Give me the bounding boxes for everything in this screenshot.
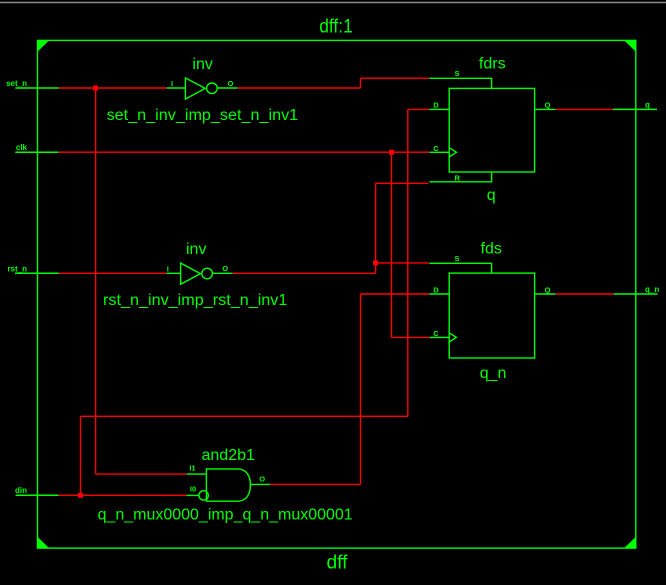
wire clk branch vertical to fds C xyxy=(391,152,393,337)
svg-text:q: q xyxy=(487,187,496,204)
wire U5 output horizontal xyxy=(270,483,360,485)
I0 inversion bubble of U5 xyxy=(199,491,208,500)
sheet border xyxy=(38,40,636,548)
R pin stub of U3 xyxy=(429,172,491,182)
red nets xyxy=(59,78,614,495)
Q pin stub of U4 xyxy=(535,293,556,295)
junction on clk net xyxy=(389,150,394,155)
wire din branch vertical to fdrs D xyxy=(407,109,409,416)
corner mark bottom-right xyxy=(624,537,636,548)
svg-text:D: D xyxy=(433,101,439,110)
svg-text:q_n: q_n xyxy=(480,365,507,382)
wire set_n branch horizontal to U5 I1 xyxy=(96,473,187,475)
I1 pin stub of U5 xyxy=(187,473,207,475)
wire U5 output vertical to fds D xyxy=(360,294,362,484)
wire din branch horizontal xyxy=(81,415,408,417)
svg-text:O: O xyxy=(222,264,228,273)
wire din branch vertical xyxy=(80,416,82,495)
C pin stub of U3 xyxy=(429,151,449,153)
svg-text:rst_n_inv_imp_rst_n_inv1: rst_n_inv_imp_rst_n_inv1 xyxy=(103,292,287,309)
wire U1 output to fdrs S xyxy=(361,77,429,79)
svg-text:I0: I0 xyxy=(190,485,196,494)
svg-text:C: C xyxy=(433,329,439,338)
S pin stub of U4 xyxy=(429,263,491,273)
svg-text:S: S xyxy=(455,69,460,78)
top separator line xyxy=(0,2,666,4)
wire set_n to U1 input xyxy=(59,87,167,89)
wire fds Q to q_n pin xyxy=(556,293,614,295)
flip-flop U4 fds xyxy=(429,263,555,358)
svg-text:D: D xyxy=(433,286,439,295)
and-gate U5 and2b1 xyxy=(187,469,271,501)
svg-text:inv: inv xyxy=(186,241,206,258)
wire din branch horizontal to fdrs D xyxy=(408,108,430,110)
input pin clk xyxy=(15,151,58,153)
Q pin stub of U3 xyxy=(535,108,556,110)
svg-text:dff: dff xyxy=(327,553,349,574)
clock mark of U3 xyxy=(449,148,456,157)
I0 pin stub of U5 xyxy=(187,494,199,496)
svg-text:set_n: set_n xyxy=(6,79,27,88)
svg-text:I: I xyxy=(167,264,169,273)
clock mark of U4 xyxy=(449,333,456,342)
input pin rst_n xyxy=(15,272,59,274)
wire clk to fdrs C xyxy=(59,151,430,153)
svg-text:I1: I1 xyxy=(189,464,195,473)
svg-text:C: C xyxy=(433,144,439,153)
svg-text:fdrs: fdrs xyxy=(479,55,506,72)
O pin stub of U5 xyxy=(250,483,270,485)
wire U1 output bend vertical xyxy=(360,78,362,88)
wire rst_n to U2 input xyxy=(59,272,167,274)
D pin stub of U4 xyxy=(429,293,449,295)
svg-text:set_n_inv_imp_set_n_inv1: set_n_inv_imp_set_n_inv1 xyxy=(107,107,299,124)
corner mark bottom-left xyxy=(38,537,50,548)
wire din to U5 I0 xyxy=(59,494,187,496)
wire clk branch horizontal to fds C xyxy=(392,336,430,338)
svg-text:dff:1: dff:1 xyxy=(319,17,353,38)
svg-text:R: R xyxy=(455,173,461,182)
wire rst branch to fds S xyxy=(376,262,429,264)
svg-text:I: I xyxy=(171,79,173,88)
wire rst vertical to fdrs R xyxy=(375,183,377,273)
junction on set_n net xyxy=(93,86,98,91)
output pin q_n xyxy=(614,293,658,295)
svg-text:din: din xyxy=(15,486,27,495)
inverter U2 rst_n_inv xyxy=(167,263,233,284)
corner mark top-left xyxy=(38,40,50,51)
svg-text:fds: fds xyxy=(481,240,502,257)
svg-text:inv: inv xyxy=(192,56,212,73)
corner mark top-right xyxy=(624,40,636,51)
input pin din xyxy=(16,494,59,496)
D pin stub of U3 xyxy=(429,108,449,110)
junction on rst net xyxy=(373,260,378,265)
wire fdrs Q to q pin xyxy=(556,108,613,110)
svg-text:q_n: q_n xyxy=(645,285,659,294)
svg-text:rst_n: rst_n xyxy=(7,264,27,273)
input pin set_n xyxy=(15,87,59,89)
svg-text:and2b1: and2b1 xyxy=(202,447,255,464)
svg-text:S: S xyxy=(455,254,460,263)
C pin stub of U4 xyxy=(430,336,450,338)
inverter U1 set_n_inv xyxy=(167,78,238,99)
wire U1 output horizontal xyxy=(238,87,361,89)
wire U2 output horizontal xyxy=(233,272,376,274)
svg-text:q: q xyxy=(645,101,650,110)
wire rst to fdrs R horizontal xyxy=(376,182,429,184)
flip-flop U3 fdrs xyxy=(429,78,555,182)
output pin q xyxy=(613,108,657,110)
svg-text:clk: clk xyxy=(16,143,28,152)
svg-text:O: O xyxy=(259,475,265,484)
svg-text:Q: Q xyxy=(545,101,551,110)
svg-text:O: O xyxy=(228,79,234,88)
wire U5 output horizontal to fds D xyxy=(361,293,430,295)
S pin stub of U3 xyxy=(429,78,491,88)
wire set_n branch vertical to and I1 xyxy=(95,88,97,474)
svg-text:q_n_mux0000_imp_q_n_mux00001: q_n_mux0000_imp_q_n_mux00001 xyxy=(98,506,353,523)
junction on din net xyxy=(78,493,83,498)
svg-text:Q: Q xyxy=(545,286,551,295)
